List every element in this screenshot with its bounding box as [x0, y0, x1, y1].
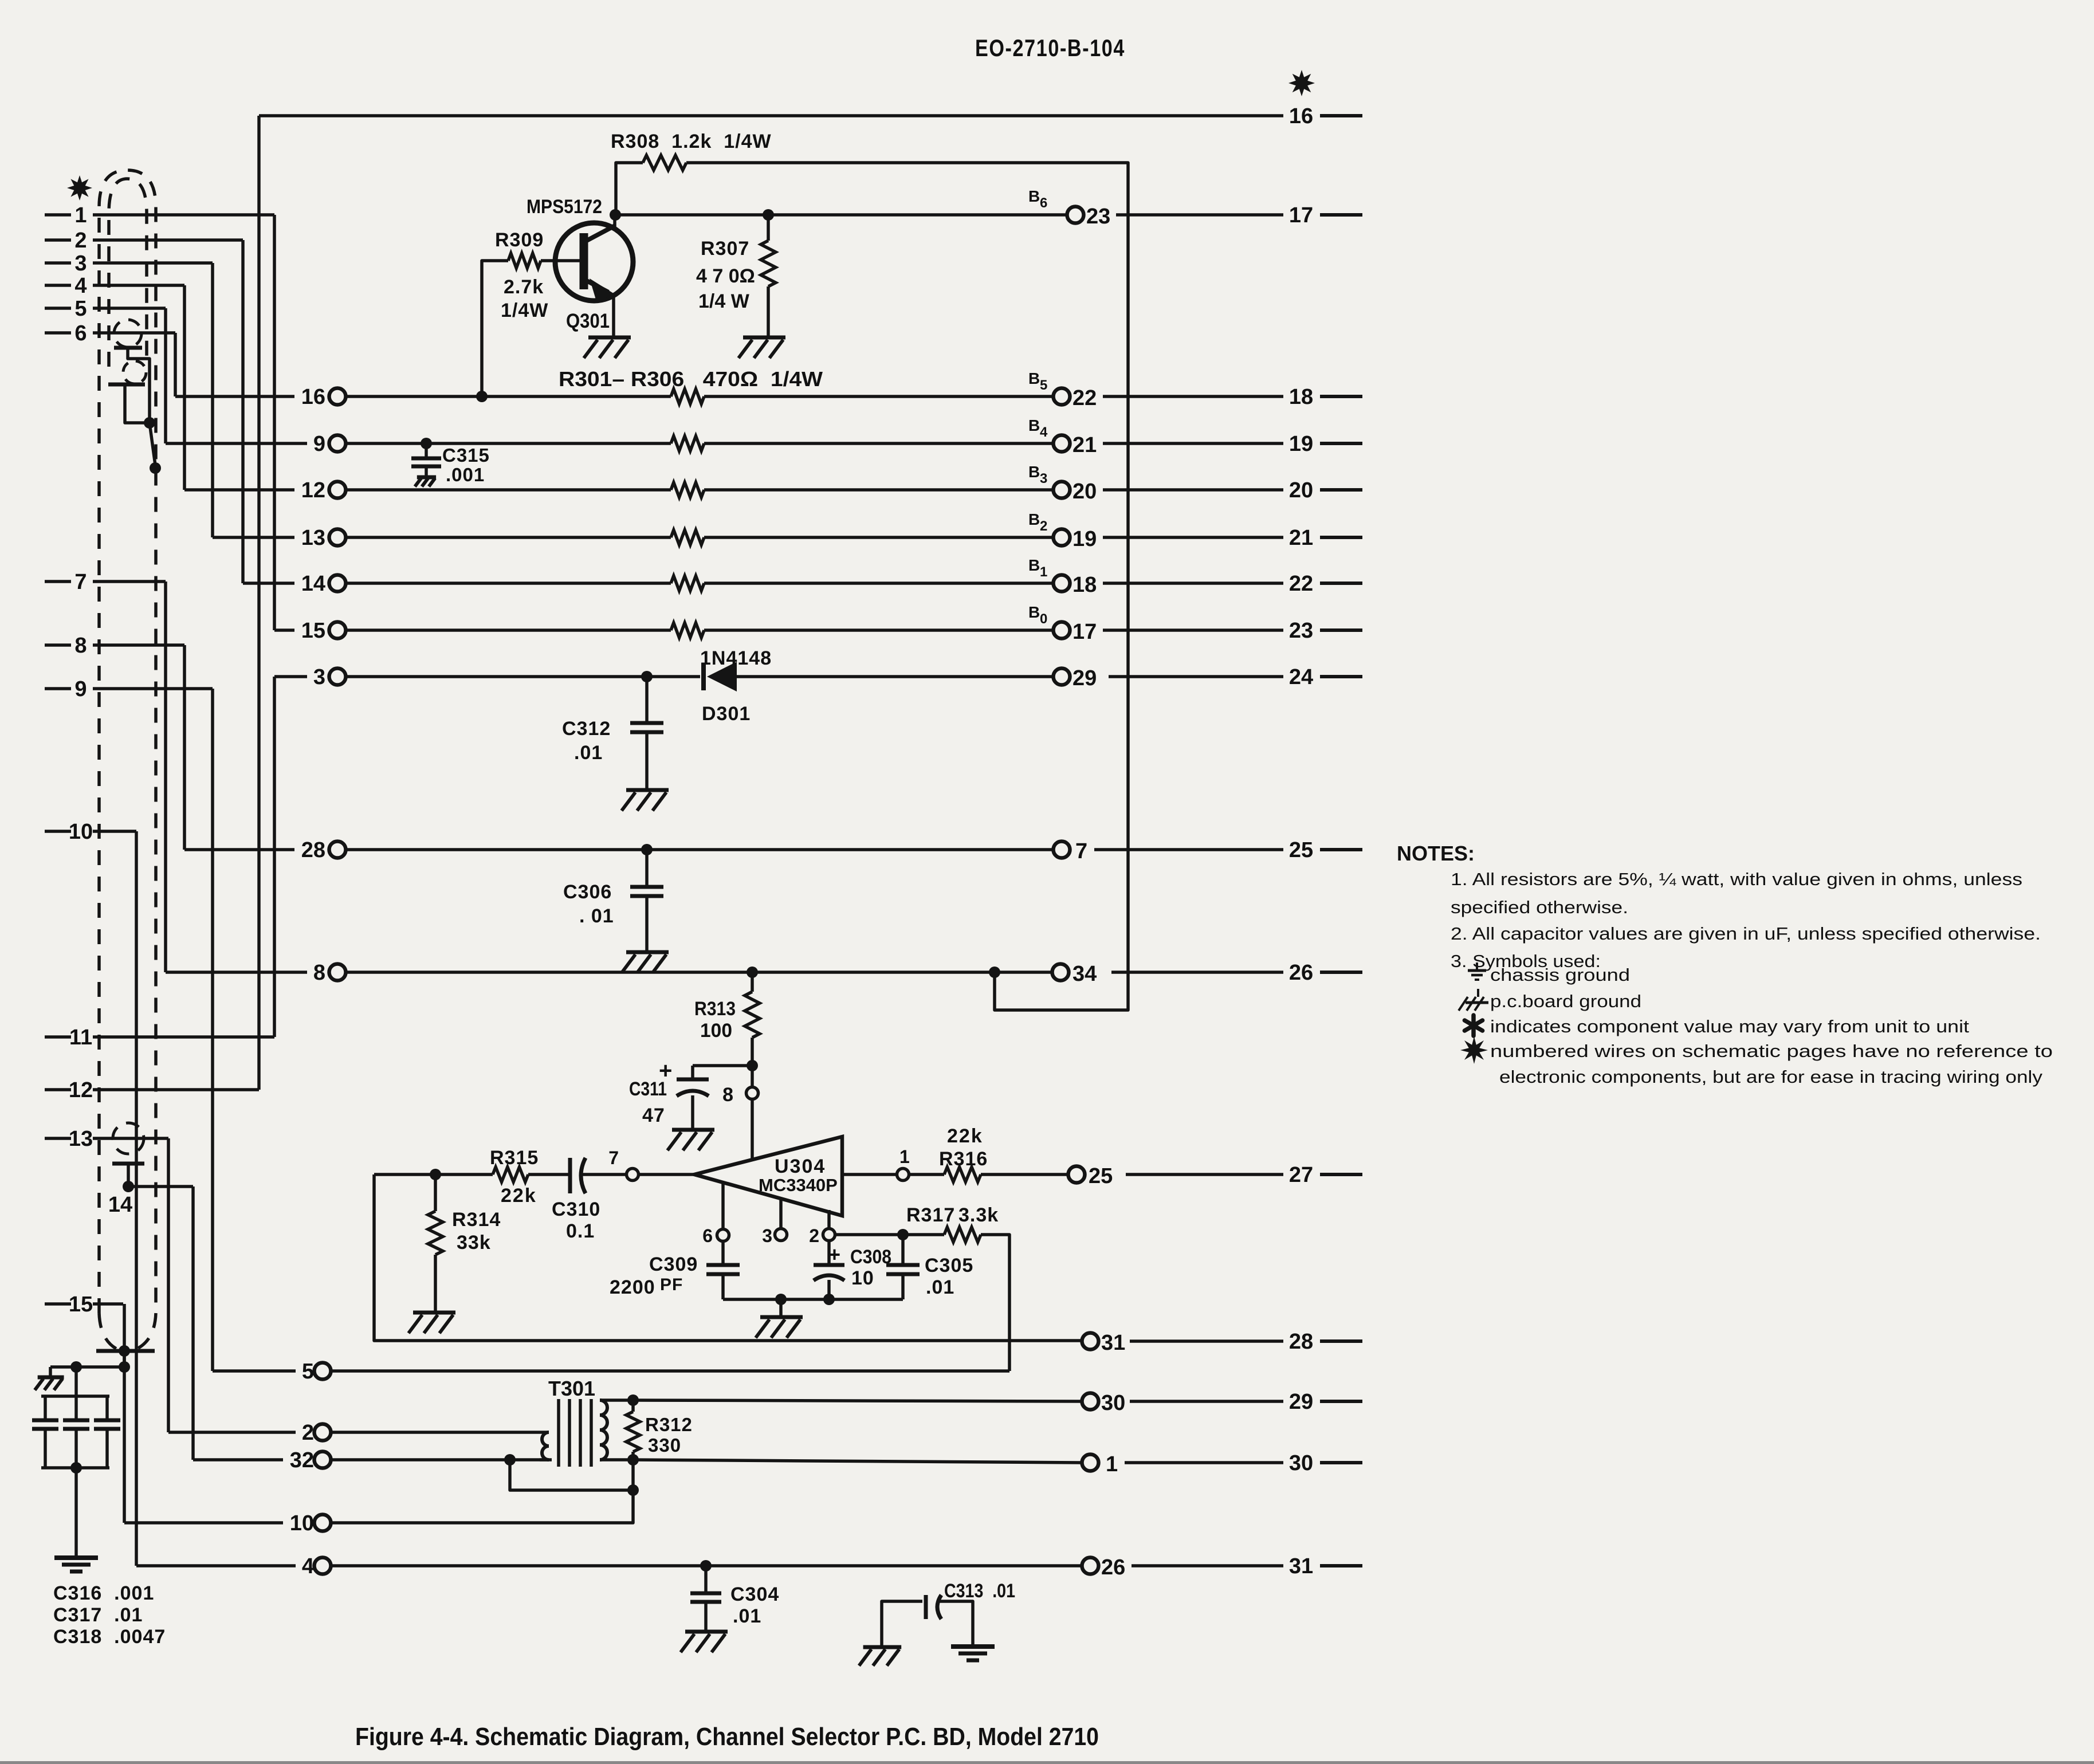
shield tap bar (wire 14): [112, 1162, 144, 1166]
svg-text:4: 4: [74, 274, 87, 298]
svg-text:C310: C310: [552, 1199, 600, 1220]
svg-text:12: 12: [69, 1078, 93, 1102]
junction: secondary top: [627, 1394, 639, 1406]
wire 4 (cable lead 4): [45, 274, 184, 298]
svg-text:B: B: [1028, 556, 1040, 574]
wire: row 29 right segment: [737, 675, 1054, 678]
U304 pin 1: [897, 1146, 910, 1181]
wire: wire 4 drop to pin 12: [183, 285, 186, 490]
wire: left bus from wire 16 line down to wire 12: [257, 116, 261, 1090]
svg-text:R313: R313: [694, 998, 736, 1020]
wire: pin 4 run to pin 26: [331, 1564, 1082, 1567]
svg-text:B: B: [1028, 417, 1040, 434]
p.c. board ground (C304): [681, 1632, 728, 1652]
svg-text:B: B: [1028, 187, 1040, 205]
wire 17 : run from Q301 collector to right edge: [615, 213, 1283, 217]
value label 47: [642, 1105, 665, 1126]
svg-text:R309: R309: [495, 229, 544, 251]
value label .01 (C305): [926, 1276, 954, 1298]
shield of twisted pair (wire 13) : dashed circle: [113, 1123, 144, 1154]
svg-text:C308: C308: [850, 1246, 891, 1268]
wire 26 right edge label: [1289, 961, 1362, 985]
svg-text:B: B: [1028, 510, 1040, 528]
p.c. board ground (R307): [738, 337, 785, 358]
wire: row 18 to pin: [704, 582, 1054, 585]
wire: wire 3 drop to pin 13: [211, 263, 214, 537]
wire: pin 2 to R317: [835, 1233, 944, 1236]
shield of twisted pair (wire 6) : dashed circle: [114, 320, 142, 347]
value label C308: [850, 1246, 891, 1268]
wire: wire 6 drop to pin 16: [174, 333, 177, 396]
svg-text:R314: R314: [452, 1209, 501, 1231]
svg-text:29: 29: [1289, 1390, 1313, 1414]
svg-text:6: 6: [1040, 195, 1047, 211]
wire: R316 to pin 25: [981, 1173, 1068, 1176]
svg-text:C316 .001: C316 .001: [53, 1582, 154, 1604]
label MC3340P: [759, 1175, 838, 1195]
svg-text:14: 14: [301, 572, 325, 596]
value label C304: [730, 1584, 779, 1605]
svg-text:23: 23: [1289, 619, 1313, 643]
junction: C304 tap: [700, 1560, 712, 1572]
svg-text:.01: .01: [926, 1276, 954, 1298]
svg-text:C305: C305: [925, 1255, 973, 1276]
junction: shield drains: [144, 417, 155, 429]
svg-text:0: 0: [1040, 611, 1047, 627]
svg-text:13: 13: [301, 526, 325, 550]
value label .001: [446, 464, 485, 485]
svg-text:20: 20: [1289, 478, 1313, 502]
wire: pin 2 run to T301 primary: [331, 1431, 540, 1434]
wire into left pin at y=1483: [184, 848, 294, 851]
svg-text:R312: R312: [645, 1414, 693, 1435]
wire into left pin at y=2733: [136, 1564, 296, 1567]
svg-text:1/4 W: 1/4 W: [698, 290, 750, 312]
resistor R302: [671, 436, 704, 451]
svg-text:31: 31: [1289, 1554, 1313, 1578]
wire: wire 8 drop to pin 28: [183, 645, 186, 850]
svg-text:R307: R307: [701, 238, 749, 260]
p.c. board ground (Q301 emitter): [584, 337, 631, 358]
wire into left pin at y=2393: [213, 1369, 296, 1373]
wire 16 : top horizontal run: [259, 114, 1283, 117]
svg-text:4: 4: [302, 1554, 314, 1578]
svg-text:7: 7: [1075, 839, 1087, 863]
junction: R307 top: [763, 209, 774, 221]
junction: shield termination: [119, 1345, 130, 1357]
wire: rail to ground: [779, 1299, 783, 1317]
notes heading: [1397, 842, 1475, 865]
wire 30 right edge label: [1289, 1451, 1362, 1475]
wire: R309 to row 16: [482, 261, 508, 396]
junction: wire 14: [123, 1181, 134, 1192]
svg-text:EO-2710-B-104: EO-2710-B-104: [975, 34, 1125, 61]
capacitor C315: [411, 443, 441, 477]
wire 30 : to right edge: [1125, 1461, 1283, 1464]
svg-text:specified otherwise.: specified otherwise.: [1451, 897, 1628, 917]
wire: row 19 to pin: [704, 536, 1054, 539]
svg-text:8: 8: [722, 1084, 733, 1106]
connector pin 22 (right): [1054, 386, 1097, 410]
svg-text:18: 18: [1289, 385, 1313, 409]
value label 1/4W: [501, 300, 548, 321]
svg-text:8: 8: [313, 961, 325, 985]
U304 pin 8: [722, 1084, 758, 1160]
svg-text:D301: D301: [702, 703, 751, 725]
connector pin 9 (left): [313, 432, 346, 456]
node B1 label: [1028, 556, 1047, 580]
svg-text:9: 9: [74, 677, 87, 701]
capacitor C318: [94, 1396, 120, 1468]
p.c. board ground (C313): [859, 1647, 901, 1665]
junction: C306 tap: [641, 844, 653, 855]
wire 1 (cable lead 1): [45, 203, 274, 227]
svg-text:34: 34: [1072, 962, 1097, 986]
svg-text:numbered wires on schematic pa: numbered wires on schematic pages have n…: [1490, 1041, 2053, 1061]
wire 31 : to right edge: [1132, 1564, 1283, 1567]
svg-text:27: 27: [1289, 1163, 1313, 1187]
resistor R314: [428, 1174, 443, 1313]
svg-text:21: 21: [1289, 526, 1313, 550]
svg-text:29: 29: [1072, 666, 1097, 690]
wire 18 right edge label: [1289, 385, 1362, 409]
svg-text:47: 47: [642, 1105, 665, 1126]
wire 26 : to right edge: [1111, 971, 1283, 974]
svg-text:1N4148: 1N4148: [700, 647, 772, 669]
capacitor C310: [528, 1158, 627, 1193]
svg-text:4: 4: [1040, 425, 1048, 440]
wire: pin 5 run to R317: [331, 1369, 1009, 1373]
svg-text:31: 31: [1101, 1331, 1125, 1355]
wire 27 : to right edge: [1126, 1173, 1283, 1176]
connector pin 4 (left, lower group): [302, 1554, 331, 1578]
capacitor C306: [630, 850, 663, 952]
star symbol (numbered-wire marker, top right): [1288, 70, 1315, 96]
connector pin 31 (right): [1082, 1331, 1126, 1355]
svg-text:Figure 4-4. Schematic Diagram,: Figure 4-4. Schematic Diagram, Channel S…: [355, 1723, 1099, 1751]
transformer T301 secondary winding: [600, 1400, 633, 1460]
svg-text:1: 1: [1040, 564, 1047, 580]
p.c. board ground (C306): [622, 952, 669, 973]
wire: row 22 left segment: [345, 395, 671, 398]
wire: wire 7 drop to pin 8: [164, 582, 167, 972]
wire: row 19 left segment: [345, 536, 671, 539]
junction: Q301 collector node: [610, 209, 621, 221]
svg-text:21: 21: [1072, 433, 1097, 457]
svg-text:R301– R306 470Ω 1/4W: R301– R306 470Ω 1/4W: [559, 367, 823, 391]
value label R313: [694, 998, 736, 1020]
svg-text:3: 3: [762, 1225, 772, 1246]
svg-text:5: 5: [302, 1360, 314, 1384]
wire 20 right edge label: [1289, 478, 1362, 502]
svg-text:3: 3: [74, 252, 87, 276]
svg-text:10: 10: [290, 1511, 314, 1535]
svg-text:C312: C312: [562, 718, 611, 740]
svg-text:2: 2: [302, 1421, 314, 1445]
shield tap bar (pair 2): [108, 383, 145, 387]
svg-text:4 7 0Ω: 4 7 0Ω: [696, 265, 755, 287]
wire 28 right edge label: [1289, 1330, 1362, 1354]
svg-text:R315: R315: [490, 1147, 539, 1169]
U304 pin 6: [702, 1181, 729, 1246]
svg-text:2.7k: 2.7k: [504, 276, 544, 298]
wire 29 right edge label: [1289, 1390, 1362, 1414]
wire 7 (cable lead 7): [45, 570, 166, 594]
wire: primary return strap: [510, 1460, 633, 1490]
wire: common shield drain to cable shield wall: [150, 423, 156, 469]
wire 31 right edge label: [1289, 1554, 1362, 1578]
wire 18 : to right edge: [1103, 395, 1283, 398]
value label R312: [645, 1414, 693, 1435]
value label C313 .01: [944, 1580, 1015, 1602]
wire 13 (cable lead 13): [45, 1127, 168, 1151]
svg-text:28: 28: [1289, 1330, 1313, 1354]
wire 29 : to right edge: [1130, 1400, 1283, 1403]
wire into left pin at y=2500: [168, 1431, 296, 1434]
wire 20 : to right edge: [1103, 488, 1283, 492]
capacitor C305: [886, 1235, 920, 1299]
junction: pin 3 ground: [775, 1294, 787, 1305]
value label C312: [562, 718, 611, 740]
wire: wire 9 drop to pin 5: [211, 689, 214, 1371]
wire 23 : to right edge: [1103, 628, 1283, 632]
svg-text:p.c.board ground: p.c.board ground: [1490, 991, 1641, 1011]
connector pin 29 (right): [1054, 666, 1097, 690]
resistor R301: [671, 389, 704, 404]
svg-text:3: 3: [1040, 471, 1047, 486]
connector pin 3 (left): [313, 665, 346, 689]
svg-text:30: 30: [1289, 1451, 1313, 1475]
svg-text:22: 22: [1072, 386, 1097, 410]
label U304: [775, 1156, 826, 1177]
svg-text:7: 7: [608, 1148, 619, 1168]
p.c. board ground (C311): [667, 1130, 714, 1150]
svg-text:B: B: [1028, 370, 1040, 387]
node B5 label: [1028, 370, 1047, 393]
svg-text:indicates component value may: indicates component value may vary from …: [1490, 1016, 1969, 1036]
capacitor C317: [63, 1396, 89, 1468]
value label R316: [939, 1148, 988, 1170]
value label R317: [906, 1204, 955, 1226]
svg-text:6: 6: [702, 1225, 713, 1246]
value label C311: [629, 1078, 667, 1100]
p.c. board ground (U304): [756, 1317, 803, 1338]
wire 16 right edge label: [1289, 104, 1362, 128]
connector pin 16 (left): [301, 385, 346, 409]
junction: bottom rail: [70, 1462, 82, 1474]
chassis ground (capacitor bank): [54, 1558, 98, 1572]
p.c. board ground (R314): [408, 1313, 455, 1333]
resistor R313: [745, 972, 760, 1066]
svg-text:7: 7: [74, 570, 87, 594]
svg-text:15: 15: [69, 1292, 93, 1317]
svg-text:9: 9: [313, 432, 325, 456]
wire: shield termination to ground rail: [123, 1351, 126, 1367]
wire 15 (cable lead 15): [45, 1292, 123, 1317]
svg-text:PF: PF: [660, 1275, 683, 1294]
value label 10: [851, 1267, 874, 1289]
connector pin 2 (left, lower group): [302, 1421, 331, 1445]
transformer T301 core: [559, 1399, 591, 1467]
junction: secondary bottom: [627, 1454, 639, 1466]
svg-text:20: 20: [1072, 480, 1097, 504]
chassis ground (C313): [951, 1647, 995, 1660]
wire into left pin at y=938: [213, 536, 294, 539]
svg-text:22: 22: [1289, 572, 1313, 596]
wire into left pin at y=1181: [274, 675, 307, 678]
svg-text:100: 100: [700, 1020, 732, 1042]
wire: wire 13 drop to pin 2: [167, 1138, 170, 1432]
wire: row 22 to pin: [704, 395, 1054, 398]
wire 22 : to right edge: [1103, 582, 1283, 585]
value label 3.3k: [958, 1204, 999, 1226]
wire 8 (cable lead 8): [45, 634, 184, 658]
svg-text:10: 10: [851, 1267, 874, 1289]
diode D301 (1N4148): [704, 662, 737, 692]
resistor R305: [671, 576, 704, 591]
svg-text:.01: .01: [733, 1605, 761, 1627]
svg-text:18: 18: [1072, 573, 1097, 597]
svg-text:3.3k: 3.3k: [958, 1204, 999, 1226]
shield of twisted pair 2 : dashed circle: [123, 361, 146, 384]
value label 100: [700, 1020, 732, 1042]
connector pin 19 (right): [1054, 527, 1097, 551]
node B4 label: [1028, 417, 1048, 440]
star symbol (numbered-wire marker, top left): [67, 175, 92, 201]
note text: numbered wires line 2: [1499, 1067, 2043, 1087]
wire: wire 14 drop to pin 32: [191, 1187, 195, 1460]
cable shield tube (dashed outline): [99, 170, 156, 1352]
connector pin 34 (right): [1052, 962, 1097, 986]
svg-text:24: 24: [1289, 665, 1313, 689]
svg-text:C311: C311: [629, 1078, 667, 1100]
svg-text:11: 11: [69, 1026, 92, 1050]
wire into left pin at y=1018: [243, 582, 294, 585]
svg-text:1: 1: [1106, 1452, 1118, 1476]
wire: wire 5 drop to pin 9: [164, 308, 167, 443]
note text line 2: [1451, 897, 1628, 917]
svg-text:T301: T301: [548, 1377, 595, 1400]
svg-text:B: B: [1028, 603, 1040, 621]
value label 2.7k: [504, 276, 544, 298]
value label R308 1.2k 1/4W: [611, 131, 772, 152]
svg-text:16: 16: [301, 385, 325, 409]
wire: row 34 (pin 8 to pin 34): [346, 971, 1052, 974]
junction: R309 tap on row 16: [476, 391, 488, 402]
connector pin 8 (left): [313, 961, 346, 985]
value label 22k (R316): [947, 1125, 983, 1147]
capacitor C313: [882, 1595, 973, 1647]
value label 470 ohm: [696, 265, 755, 287]
wire into left pin at y=2658: [124, 1521, 283, 1525]
wire: secondary bottom to pin 1: [633, 1460, 1082, 1463]
note text line 3: [1451, 924, 2041, 944]
junction: C305 top: [897, 1229, 909, 1240]
wire: row 21 left segment: [345, 442, 671, 445]
svg-text:13: 13: [69, 1127, 93, 1151]
svg-text:2: 2: [809, 1225, 819, 1246]
svg-text:1: 1: [899, 1146, 910, 1167]
resistor R308: [616, 155, 686, 215]
svg-text:C304: C304: [730, 1584, 779, 1605]
svg-text:28: 28: [301, 838, 325, 862]
drawing number EO-2710-B-104: [975, 34, 1125, 61]
svg-text:26: 26: [1289, 961, 1313, 985]
svg-text:chassis ground: chassis ground: [1490, 965, 1630, 985]
capacitor C311 (polarized): [659, 1058, 752, 1130]
capacitor C309: [706, 1242, 740, 1299]
resistor R307: [761, 215, 776, 337]
note text: indicates component value may vary: [1490, 1016, 1969, 1036]
svg-text:Q301: Q301: [566, 310, 610, 332]
svg-text:5: 5: [1040, 378, 1047, 393]
connector pin 10 (left, lower group): [290, 1511, 331, 1535]
svg-text:25: 25: [1289, 838, 1313, 862]
wire into left pin at y=2548: [193, 1458, 283, 1462]
wire 25 right edge label: [1289, 838, 1362, 862]
wire: row 29 left segment: [345, 675, 700, 678]
wire: secondary top to pin 30: [633, 1400, 1082, 1401]
wire: row 20 to pin: [704, 488, 1054, 492]
wire: wire 2 drop to pin 14: [241, 240, 245, 583]
node B2 label: [1028, 510, 1047, 534]
wire: row 20 left segment: [345, 488, 671, 492]
svg-text:19: 19: [1072, 527, 1097, 551]
resistor R303: [671, 482, 704, 497]
wire: row 17 to pin: [704, 628, 1054, 632]
svg-text:electronic components, but are: electronic components, but are for ease …: [1499, 1067, 2043, 1087]
connector pin 13 (left): [301, 526, 346, 550]
svg-text:NOTES:: NOTES:: [1397, 842, 1475, 865]
junction: bus tie on row 34: [989, 967, 1000, 978]
connector pin 32 (left, lower group): [290, 1448, 331, 1472]
svg-text:.01: .01: [574, 742, 603, 764]
value label C318 .0047: [53, 1626, 166, 1648]
wire 9 (cable lead 9): [45, 677, 213, 701]
connector pin 20 (right): [1054, 480, 1097, 504]
svg-text:B: B: [1028, 463, 1040, 481]
wire 3 (cable lead 3): [45, 252, 213, 276]
svg-text:C306: C306: [563, 881, 612, 903]
value label .01 (C306): [579, 905, 614, 927]
resistor R315: [493, 1167, 528, 1182]
svg-text:C315: C315: [442, 445, 490, 466]
svg-text:5: 5: [74, 297, 87, 321]
svg-text:19: 19: [1289, 432, 1313, 456]
transformer T301 primary winding: [510, 1432, 552, 1460]
junction: C315 tap: [421, 438, 432, 449]
svg-text:32: 32: [290, 1448, 314, 1472]
wire: tie down to pin 10 run: [331, 1490, 633, 1523]
svg-text:2200: 2200: [610, 1276, 655, 1298]
wire: feedback node to R315: [374, 1173, 493, 1176]
svg-text:C313 .01: C313 .01: [944, 1580, 1015, 1602]
svg-text:2. All capacitor values are gi: 2. All capacitor values are given in uF,…: [1451, 924, 2041, 944]
transistor Q301 (MPS5172): [541, 215, 633, 337]
wire: row 18 left segment: [345, 582, 671, 585]
capacitor C312: [630, 677, 663, 790]
wire 27 right edge label: [1289, 1163, 1362, 1187]
junction: C308 ground: [823, 1294, 835, 1305]
svg-text:1: 1: [74, 203, 87, 227]
value label C306: [563, 881, 612, 903]
connector pin 25 (right): [1068, 1164, 1113, 1188]
p.c. board ground (C315): [415, 477, 436, 486]
svg-text:14: 14: [108, 1193, 132, 1217]
p.c. board ground legend symbol: [1459, 989, 1488, 1011]
value label .01 (C304): [733, 1605, 761, 1627]
svg-text:25: 25: [1089, 1164, 1113, 1188]
